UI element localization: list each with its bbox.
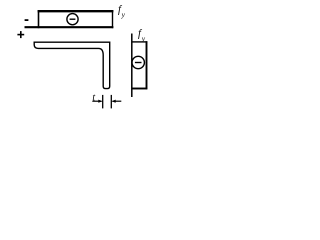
svg-text:t: t <box>92 92 95 103</box>
svg-text:y: y <box>141 34 146 43</box>
svg-text:y: y <box>121 10 126 19</box>
